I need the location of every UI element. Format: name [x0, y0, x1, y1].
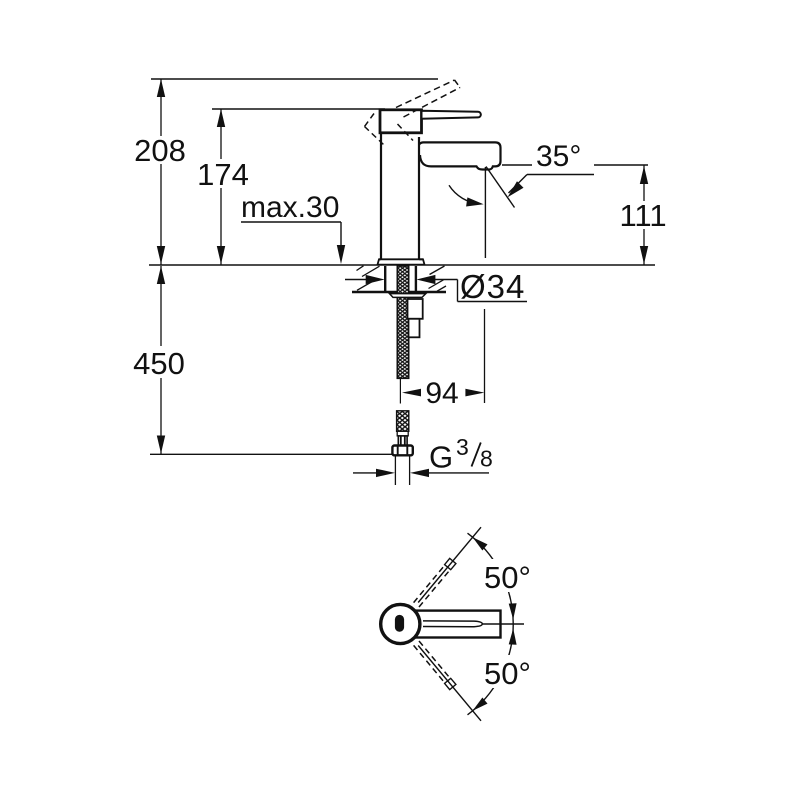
upper dashed lever position [414, 566, 450, 607]
lever handle (plan view) [413, 611, 501, 638]
faucet body circle (plan view) [381, 604, 420, 643]
handle housing (top cap) [380, 110, 422, 133]
svg-text:111: 111 [619, 198, 666, 233]
section hatching (right) [429, 266, 447, 291]
label 50 degrees (lower) [481, 655, 533, 691]
water stream 35-degree line [486, 167, 515, 208]
hose end fitting [398, 436, 407, 446]
label G 3/8 (thread size) [429, 434, 493, 475]
handle slot (plan view) [395, 615, 404, 632]
lower lever tip bead [445, 678, 456, 689]
threaded mounting stud [397, 266, 408, 378]
extension line at nut (450 ref) [150, 453, 392, 455]
extension line: top of handle housing (174 ref) [212, 108, 385, 110]
dimension 111 (spout height) [619, 166, 666, 266]
svg-text:max.30: max.30 [241, 191, 339, 224]
lower dashed lever position [414, 641, 450, 682]
fixing bolt below washer [408, 299, 423, 337]
lever handle raised position (dashed) [396, 80, 460, 117]
counter top surface line [149, 264, 655, 266]
svg-text:8: 8 [480, 446, 493, 472]
dimension 208 (overall height) [134, 79, 186, 265]
hose ferrule [397, 431, 408, 436]
50-degree dimension arc [468, 533, 514, 715]
svg-text:Ø34: Ø34 [460, 268, 525, 305]
svg-text:208: 208 [134, 133, 186, 168]
dimension max.30 (counter thickness) with leader arrow [241, 191, 345, 264]
mounting shank through counter [385, 266, 416, 292]
section hatching (left) [357, 266, 380, 291]
svg-text:G: G [429, 440, 453, 475]
dimension 450 (hose length) [133, 266, 185, 454]
spout (side view) with mousseur outlet [420, 142, 501, 169]
handle housing raised position (dashed) [365, 114, 414, 145]
upper 50-degree lever centerline [418, 527, 481, 602]
35-degree leader arrow [508, 175, 595, 198]
extension line: top of raised lever (208 ref) [151, 78, 438, 80]
connection pipe end [395, 455, 409, 485]
dimension 35 degrees (spout angle) [502, 140, 648, 173]
faucet base flange [378, 259, 425, 264]
svg-text:174: 174 [197, 157, 249, 192]
G3/8 connection nut [392, 446, 412, 456]
washer [390, 294, 426, 298]
dimension 174 (height to housing) [197, 109, 249, 265]
arc arrowhead below centerline [509, 629, 517, 645]
svg-text:450: 450 [133, 346, 185, 381]
lever top ridge (plan view) [423, 621, 482, 627]
arc arrowhead at lower lever line [473, 698, 488, 711]
lever handle (horizontal position, side view) [422, 111, 481, 119]
upper lever tip bead [445, 558, 456, 569]
centerline below stud (94 ref) [399, 378, 401, 403]
svg-text:35°: 35° [536, 140, 581, 173]
svg-text:3: 3 [456, 434, 469, 460]
svg-text:50°: 50° [484, 656, 531, 691]
stream centerline extension below counter [484, 309, 486, 403]
arc arrowhead above centerline [509, 603, 517, 619]
faucet body (side view) [381, 133, 419, 260]
lower 50-degree lever centerline [418, 646, 481, 721]
flexible hose braided section [397, 411, 409, 432]
arc arrowhead at upper lever line [473, 537, 488, 550]
svg-text:50°: 50° [484, 560, 531, 595]
stream angle arc arrow [449, 185, 484, 206]
counter underside line [352, 291, 446, 294]
horizontal centerline (plan) [482, 623, 524, 625]
dimension 94 (spout projection) [402, 377, 484, 410]
water stream vertical reference line [484, 167, 486, 258]
dimension G3/8 arrows [353, 469, 489, 477]
svg-text:94: 94 [425, 377, 458, 410]
label 50 degrees (upper) [481, 559, 533, 595]
dimension diameter 34 with leader [345, 268, 527, 305]
